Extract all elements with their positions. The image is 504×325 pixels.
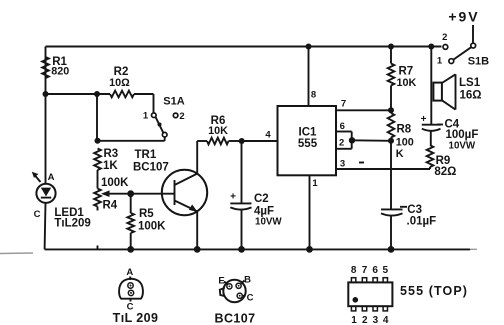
- svg-text:100K: 100K: [138, 221, 166, 233]
- speaker LS1 16ohm: [433, 74, 481, 109]
- wire S1A pole to R3 node: [164, 137, 166, 141]
- svg-text:LS1: LS1: [459, 77, 481, 89]
- svg-text:8: 8: [351, 265, 357, 276]
- resistor R9 82ohm: [427, 145, 457, 178]
- svg-text:82Ω: 82Ω: [434, 166, 456, 178]
- wire left column lower: [44, 203, 47, 250]
- svg-text:C: C: [34, 209, 41, 220]
- svg-text:100K: 100K: [101, 177, 129, 189]
- svg-text:+9V: +9V: [448, 9, 479, 25]
- capacitor C2 4uF: [230, 141, 282, 249]
- junction R7 top rail: [388, 44, 394, 50]
- svg-text:10VW: 10VW: [449, 141, 476, 152]
- svg-text:R8: R8: [397, 124, 412, 136]
- svg-text:.01µF: .01µF: [407, 216, 437, 228]
- wire R1 node to R2: [46, 93, 111, 95]
- svg-text:10Ω: 10Ω: [109, 77, 130, 89]
- svg-text:820: 820: [51, 66, 69, 78]
- capacitor C3 .01uF: [381, 204, 436, 249]
- junction C2 bottom rail: [238, 246, 245, 253]
- svg-text:2: 2: [179, 111, 184, 122]
- junction R2 left / R3 branch: [94, 91, 100, 97]
- svg-text:R5: R5: [139, 208, 154, 220]
- svg-text:R4: R4: [103, 200, 118, 212]
- junction pin1 bottom rail: [306, 246, 313, 253]
- BC107 pinout diagram: [215, 275, 256, 325]
- wire pin 7: [336, 109, 391, 111]
- junction R3 top node: [95, 138, 101, 144]
- wire bottom rail: [45, 248, 470, 250]
- capacitor C4 100uF: [421, 114, 479, 152]
- wire top rail: [46, 46, 442, 48]
- svg-text:B: B: [244, 275, 251, 286]
- svg-text:+: +: [230, 192, 236, 203]
- svg-text:6: 6: [372, 265, 378, 276]
- svg-text:3: 3: [373, 315, 379, 325]
- svg-text:2: 2: [362, 315, 368, 325]
- resistor R1 820: [42, 56, 69, 78]
- svg-text:C2: C2: [254, 193, 269, 205]
- junction pin7 R7 R8: [388, 107, 394, 113]
- svg-text:4: 4: [383, 315, 389, 325]
- junction speaker branch top rail: [428, 44, 434, 50]
- svg-text:16Ω: 16Ω: [460, 90, 482, 102]
- wire bottom rail faded end: [470, 248, 477, 250]
- wire R2 node down to R3 node: [96, 94, 98, 141]
- junction R6 / C2 / pin4: [239, 138, 245, 144]
- wire pin 8: [308, 47, 310, 107]
- wire R3 to R4: [97, 170, 99, 189]
- svg-text:1: 1: [312, 178, 318, 189]
- svg-text:10VW: 10VW: [255, 217, 282, 228]
- svg-text:2: 2: [442, 32, 447, 43]
- resistor R7 10K: [388, 47, 417, 111]
- junction left column / R2 branch: [43, 91, 49, 97]
- svg-text:10K: 10K: [397, 77, 417, 89]
- wire pin 4: [242, 140, 278, 142]
- svg-text:TıL 209: TıL 209: [113, 311, 159, 325]
- junction emitter bottom rail: [194, 246, 201, 253]
- svg-text:2: 2: [339, 138, 344, 149]
- svg-text:5: 5: [383, 265, 389, 276]
- svg-text:IC1: IC1: [299, 127, 318, 139]
- svg-text:S1B: S1B: [468, 56, 489, 68]
- switch S1B with +9V: [437, 9, 489, 68]
- svg-text:555 (TOP): 555 (TOP): [400, 284, 468, 298]
- svg-text:7: 7: [362, 265, 368, 276]
- svg-text:C: C: [247, 293, 254, 304]
- svg-text:1: 1: [143, 111, 149, 122]
- svg-text:+: +: [421, 114, 427, 125]
- wire collector up: [196, 141, 198, 174]
- svg-text:1K: 1K: [103, 160, 118, 172]
- LED1 TIL209: [32, 172, 91, 230]
- TIL209 pinout diagram: [113, 267, 159, 325]
- resistor R8 100K: [388, 113, 414, 160]
- junction pin8 top rail: [306, 44, 312, 50]
- resistor R5 100K: [127, 194, 166, 250]
- wire pin2 node to R8 node: [352, 139, 391, 142]
- svg-text:10K: 10K: [208, 125, 228, 137]
- junction R5 bottom rail: [127, 246, 134, 253]
- wire R8 node down to C3: [390, 141, 392, 209]
- svg-text:R7: R7: [399, 66, 414, 78]
- wire speaker branch upper: [430, 47, 432, 125]
- wire pin 3: [336, 168, 430, 170]
- svg-text:1: 1: [437, 56, 443, 67]
- svg-text:S1A: S1A: [163, 96, 184, 108]
- svg-text:C3: C3: [407, 204, 422, 216]
- svg-text:100µF: 100µF: [446, 129, 479, 141]
- resistor R2 10ohm: [109, 66, 134, 97]
- svg-text:TıL209: TıL209: [54, 218, 90, 230]
- svg-text:A: A: [48, 172, 55, 183]
- 555 DIP package top view: [348, 265, 468, 325]
- svg-text:3: 3: [340, 159, 345, 170]
- svg-text:100: 100: [396, 137, 414, 149]
- faint artifact line: [0, 252, 33, 255]
- wire pin 1: [309, 175, 311, 249]
- wire left column upper: [45, 47, 47, 185]
- junction R4 wiper / R5 / base: [127, 190, 134, 197]
- potentiometer R4 100K: [94, 177, 131, 249]
- svg-text:8: 8: [311, 90, 316, 101]
- junction R8 pin2 node: [388, 138, 394, 144]
- svg-text:R3: R3: [104, 148, 119, 160]
- svg-text:A: A: [126, 267, 133, 278]
- svg-text:1: 1: [351, 315, 357, 325]
- svg-text:E: E: [218, 276, 224, 287]
- svg-text:7: 7: [341, 99, 346, 110]
- resistor R3 1K: [94, 148, 118, 172]
- stray mark near pin3: [359, 162, 364, 164]
- svg-text:BC107: BC107: [133, 162, 169, 174]
- op-amp U1 IC1 555: [278, 106, 337, 175]
- svg-text:4: 4: [265, 130, 271, 141]
- junction C3 bottom rail: [388, 246, 395, 253]
- svg-text:555: 555: [298, 138, 318, 150]
- pins 6-2 bracket: [336, 121, 355, 149]
- svg-text:K: K: [396, 148, 404, 160]
- svg-text:6: 6: [340, 121, 345, 132]
- wire R2 to S1A contact 1: [134, 93, 154, 95]
- wire emitter down: [196, 211, 198, 249]
- transistor TR1 BC107: [133, 149, 207, 215]
- resistor R6 10K: [197, 115, 242, 144]
- wire base node to TR1 base: [131, 193, 175, 195]
- svg-text:BC107: BC107: [215, 312, 256, 325]
- svg-text:TR1: TR1: [135, 149, 157, 161]
- switch S1A: [143, 96, 185, 138]
